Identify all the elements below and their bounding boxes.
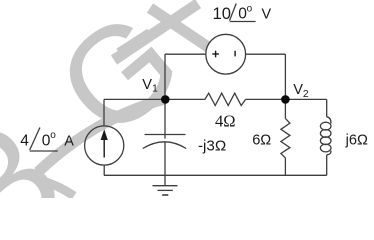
- voltage source plus sign: [212, 51, 235, 58]
- svg-text:-j3Ω: -j3Ω: [198, 137, 226, 154]
- angle symbol of top label: [230, 4, 256, 22]
- svg-text:10: 10: [213, 4, 231, 23]
- svg-text:4Ω: 4Ω: [215, 112, 236, 131]
- svg-text:j6Ω: j6Ω: [345, 132, 368, 148]
- wire right vertical from top corner to node V2: [284, 54, 286, 99]
- ground stem: [164, 175, 166, 185]
- wire main horizontal right (resistor to inductor corner): [246, 98, 327, 100]
- capacitor C1 curved plate: [143, 142, 187, 149]
- inductor L1 loop 1: [320, 122, 331, 130]
- svg-text:o: o: [50, 130, 56, 141]
- current source arrow: [102, 132, 107, 158]
- watermark small arc: [42, 181, 74, 196]
- angle symbol of left label: [30, 128, 58, 152]
- svg-text:V: V: [262, 7, 272, 23]
- wire left branch vertical lower: [103, 165, 105, 175]
- wire main horizontal left (corner to resistor): [104, 98, 205, 100]
- wire V2 to 6ohm resistor: [284, 99, 286, 118]
- svg-text:6Ω: 6Ω: [252, 132, 271, 148]
- wire bottom rail: [104, 174, 327, 176]
- watermark letter A crossbar: [119, 33, 150, 53]
- wire top-left horizontal: [165, 53, 206, 55]
- voltage source U1 circle: [206, 34, 246, 74]
- wire inductor bottom lead: [326, 155, 328, 176]
- ground bar 2: [158, 189, 173, 191]
- inductor L1 loop 4: [320, 144, 331, 152]
- resistor 4ohm zigzag: [205, 93, 246, 105]
- node V2 junction dot: [281, 95, 290, 104]
- watermark letter G: [0, 0, 208, 240]
- voltage source minus bar: [234, 51, 236, 57]
- capacitor C1 top plate: [145, 134, 186, 136]
- wire left branch vertical upper: [103, 99, 105, 126]
- resistor 6ohm zigzag: [281, 119, 290, 159]
- label 4 angle 0 A: [20, 130, 74, 149]
- inductor L1 entry curve: [327, 117, 331, 124]
- watermark letter A left leg: [114, 4, 198, 61]
- svg-text:A: A: [64, 133, 74, 149]
- inductor L1 loop 3: [320, 137, 331, 145]
- ground bar 3: [162, 194, 168, 196]
- svg-text:o: o: [247, 3, 253, 14]
- svg-text:4: 4: [20, 132, 29, 149]
- wire left vertical from top corner to node V1: [164, 54, 166, 99]
- inductor L1 loop 2: [320, 130, 331, 138]
- current source I1 circle: [85, 126, 124, 165]
- wire 6ohm to bottom rail: [284, 158, 286, 175]
- node V1 junction dot: [161, 95, 170, 104]
- wire inductor top lead: [326, 99, 328, 116]
- inductor L1 exit curve: [327, 151, 331, 155]
- label 10 angle 0 V: [213, 3, 272, 23]
- wire capacitor top lead: [164, 99, 166, 138]
- watermark letter A right leg: [150, 8, 220, 55]
- wire top-right horizontal: [246, 53, 286, 55]
- wire capacitor bottom lead to bottom rail: [164, 142, 166, 175]
- ground bar 1: [153, 185, 178, 187]
- watermark band arc: [38, 99, 165, 172]
